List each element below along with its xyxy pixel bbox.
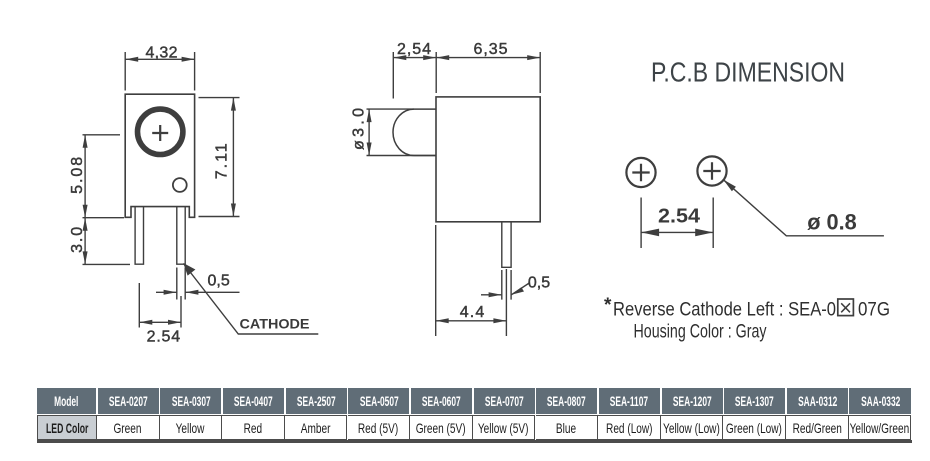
svg-text:Housing Color : Gray: Housing Color : Gray [634, 321, 767, 343]
svg-text:0,5: 0,5 [208, 273, 230, 290]
dim 4.4 extension lines [436, 225, 507, 336]
dim 0.5 lead width (front) extension lines [177, 268, 185, 300]
svg-text:3.0: 3.0 [69, 227, 86, 253]
pad hole right [697, 156, 726, 185]
dim 4.4 line [436, 320, 507, 322]
svg-text:7.11: 7.11 [213, 143, 230, 179]
cathode leader line [184, 264, 319, 335]
LED lens ring (front) [138, 109, 183, 154]
svg-text:*: * [604, 295, 612, 316]
dim diameter 3.0 line [368, 109, 370, 155]
dim 2.54 line (front) [139, 321, 181, 323]
table bottom border [37, 440, 912, 443]
dim 0.5 lead width (side) extension lines [502, 270, 511, 300]
left lead (front) [135, 207, 143, 265]
dim 7.11 line [232, 98, 234, 217]
dim 2.54 pad pitch extension lines [641, 198, 713, 249]
svg-text:0,5: 0,5 [528, 275, 550, 292]
LED lens center cross [152, 125, 168, 141]
dim diameter 3.0 extension lines [367, 109, 437, 155]
dim 3.0 line [84, 218, 86, 265]
table header row: model numbers [37, 388, 97, 414]
side lead [502, 222, 511, 267]
svg-text:6,35: 6,35 [474, 41, 508, 58]
svg-text:2.54: 2.54 [147, 329, 181, 346]
table row: LED colors [37, 415, 98, 440]
LED dome profile (side) [393, 109, 436, 155]
dim 4.32 extension lines [125, 52, 194, 91]
dim 7.11 extension lines [199, 98, 240, 217]
dim 5.08 / 3.0 extension lines [83, 135, 131, 265]
svg-text:CATHODE: CATHODE [240, 316, 310, 332]
svg-text:ø 0.8: ø 0.8 [807, 210, 857, 235]
model / LED color table [37, 388, 912, 442]
dim 2.54 lead pitch (front) extension lines [139, 283, 181, 328]
svg-text:Reverse Cathode Left : SEA-0: Reverse Cathode Left : SEA-0 [613, 299, 836, 321]
dim 2.54 line (side top) [393, 57, 436, 59]
svg-text:2.54: 2.54 [658, 206, 701, 228]
dim 2.54 pad pitch line [641, 231, 713, 233]
svg-text:ø3.0: ø3.0 [351, 108, 368, 150]
dim 0.5 lead width (side) line + arrows [481, 294, 502, 296]
svg-text:07G: 07G [858, 299, 890, 321]
svg-text:2,54: 2,54 [397, 41, 431, 58]
svg-text:4,32: 4,32 [146, 44, 178, 61]
leader diameter 0.8 [724, 180, 884, 236]
cathode index hole [173, 178, 187, 192]
dim 6.35 line [436, 57, 540, 59]
pad hole left [626, 158, 655, 187]
dim 2.54 / 6.35 extension lines (side top) [393, 52, 540, 99]
dim 0.5 lead width (front) line + arrows [156, 291, 177, 293]
svg-text:P.C.B DIMENSION: P.C.B DIMENSION [651, 57, 845, 88]
svg-text:4.4: 4.4 [460, 304, 485, 321]
svg-text:5.08: 5.08 [69, 157, 86, 194]
right lead / cathode (front) [177, 207, 185, 265]
front view body [125, 94, 194, 217]
dim 5.08 line [84, 135, 86, 218]
side view body [436, 97, 540, 222]
dim 4.32 line [125, 58, 194, 60]
